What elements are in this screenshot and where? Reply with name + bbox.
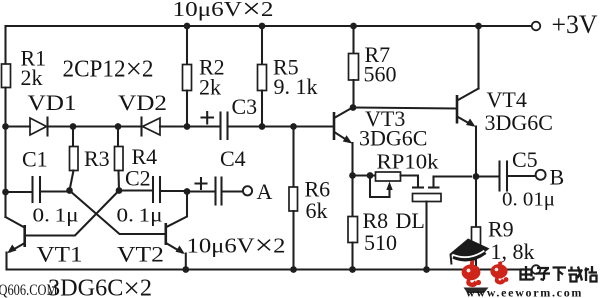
- wire top rail +3V: [6, 25, 532, 27]
- svg-text:0. 1μ: 0. 1μ: [117, 205, 163, 227]
- resistor R5: [258, 26, 318, 127]
- wire bottom rail: [7, 268, 532, 270]
- svg-text:R3: R3: [84, 146, 110, 171]
- svg-text:www.eeworm.com: www.eeworm.com: [466, 286, 583, 298]
- node top rail R2: [184, 23, 191, 30]
- wire diode row mid: [48, 125, 143, 127]
- resistor R3: [70, 127, 110, 191]
- node top rail R7: [350, 23, 357, 30]
- svg-text:2k: 2k: [199, 75, 221, 100]
- diode VD2: [118, 90, 167, 136]
- diode VD1: [28, 90, 77, 136]
- svg-text:VD1: VD1: [28, 90, 77, 115]
- node C2 left: [116, 187, 123, 194]
- node VT3 collector: [350, 104, 357, 111]
- svg-text:0. 1μ: 0. 1μ: [33, 205, 79, 227]
- wire left rail lower: [4, 88, 6, 218]
- char zai: [568, 267, 582, 282]
- svg-text:3DG6C: 3DG6C: [485, 110, 553, 135]
- node RP wiper tap: [367, 172, 374, 179]
- red bug 2: [490, 261, 508, 284]
- char zi: [536, 268, 550, 280]
- capacitor C2: [117, 166, 188, 227]
- node bottom rail VT2: [182, 266, 189, 273]
- terminal +3V: [532, 10, 598, 39]
- red bug 1: [462, 260, 482, 287]
- svg-text:+3V: +3V: [552, 10, 598, 39]
- svg-text:C3: C3: [232, 94, 258, 119]
- node diode row left: [2, 123, 9, 130]
- node VT3 emitter: [349, 172, 356, 179]
- svg-text:VD2: VD2: [118, 90, 167, 115]
- resistor R9: [472, 177, 535, 270]
- svg-text:VT4: VT4: [487, 87, 527, 112]
- svg-text:Q606.COM: Q606.COM: [0, 282, 58, 298]
- svg-text:R9: R9: [488, 217, 514, 242]
- svg-text:9. 1k: 9. 1k: [274, 74, 318, 99]
- transistor VT3: [334, 106, 427, 176]
- resistor R1: [2, 46, 47, 91]
- node C1 row left: [2, 189, 9, 196]
- resistor R8: [348, 176, 397, 270]
- svg-text:VT1: VT1: [37, 242, 83, 267]
- node diode row R3: [70, 123, 77, 130]
- svg-text:RP10k: RP10k: [377, 150, 440, 174]
- char xia: [553, 268, 567, 282]
- svg-text:1, 8k: 1, 8k: [491, 239, 535, 264]
- node top rail R5: [259, 23, 266, 30]
- node VT4 emitter: [473, 173, 480, 180]
- resistor R7: [349, 26, 397, 108]
- svg-text:510: 510: [364, 230, 397, 255]
- node top rail VT4: [475, 23, 482, 30]
- logo base pedestal: [464, 288, 489, 294]
- wire diode row right: [160, 125, 220, 127]
- node diode row R5: [259, 123, 266, 130]
- wire diode row left: [6, 125, 31, 127]
- wire cross coupling A (C1 node to VT2 base): [70, 191, 165, 235]
- resistor R2: [183, 26, 225, 127]
- node diode row R4: [115, 123, 122, 130]
- svg-text:2k: 2k: [21, 65, 43, 90]
- capacitor C4 and terminal A: [187, 146, 273, 205]
- node bottom rail DL: [423, 266, 430, 273]
- node diode row R6: [290, 123, 297, 130]
- svg-text:DL: DL: [396, 208, 425, 233]
- svg-text:10μ6V×2: 10μ6V×2: [187, 231, 286, 262]
- svg-text:3DG6C: 3DG6C: [359, 126, 427, 151]
- capacitor C3: [202, 94, 258, 139]
- svg-text:560: 560: [364, 62, 397, 87]
- svg-text:A: A: [257, 179, 273, 204]
- node diode row R2: [184, 123, 191, 130]
- wire cross coupling B (C2 node to VT1 base): [27, 191, 119, 236]
- svg-text:VT2: VT2: [117, 242, 164, 267]
- svg-text:C1: C1: [22, 147, 48, 172]
- potentiometer RP: [370, 150, 439, 198]
- wire VT3 collector to VT4 base: [353, 108, 456, 109]
- svg-text:C4: C4: [220, 146, 246, 171]
- node C1 right: [66, 187, 73, 194]
- wire left rail: [4, 26, 6, 64]
- wire C3 to VT3 base: [228, 125, 334, 127]
- wire VT3 emitter row: [353, 174, 376, 176]
- transistor VT4: [457, 26, 553, 177]
- capacitor C1: [6, 147, 79, 227]
- svg-text:6k: 6k: [306, 198, 328, 223]
- node C2 right: [184, 188, 191, 195]
- resistor R4: [115, 127, 158, 191]
- resistor R6: [289, 127, 330, 270]
- transistor VT2: [117, 192, 187, 270]
- svg-text:C5: C5: [512, 147, 538, 172]
- svg-text:3DG6C×2: 3DG6C×2: [48, 273, 152, 298]
- terminal bottom right: [532, 265, 541, 274]
- transistor VT1: [6, 217, 83, 270]
- node bottom rail R6: [290, 266, 297, 273]
- watermark eeworm logo: [450, 239, 598, 298]
- piezo element DL electrodes: [396, 177, 472, 270]
- node bottom rail R9: [473, 266, 480, 273]
- node bottom rail R8: [349, 266, 356, 273]
- wire RP right to DL electrode: [401, 176, 419, 188]
- char zhan: [585, 266, 598, 282]
- capacitor C5 and terminal B: [476, 147, 564, 211]
- svg-text:0. 01μ: 0. 01μ: [502, 189, 555, 211]
- mortarboard cap: [450, 239, 490, 262]
- svg-text:B: B: [550, 165, 565, 190]
- svg-text:C2: C2: [125, 166, 151, 191]
- char dian: [520, 266, 534, 280]
- watermark text dianzi xiazaizhan: [520, 266, 597, 282]
- svg-text:2CP12×2: 2CP12×2: [63, 53, 154, 86]
